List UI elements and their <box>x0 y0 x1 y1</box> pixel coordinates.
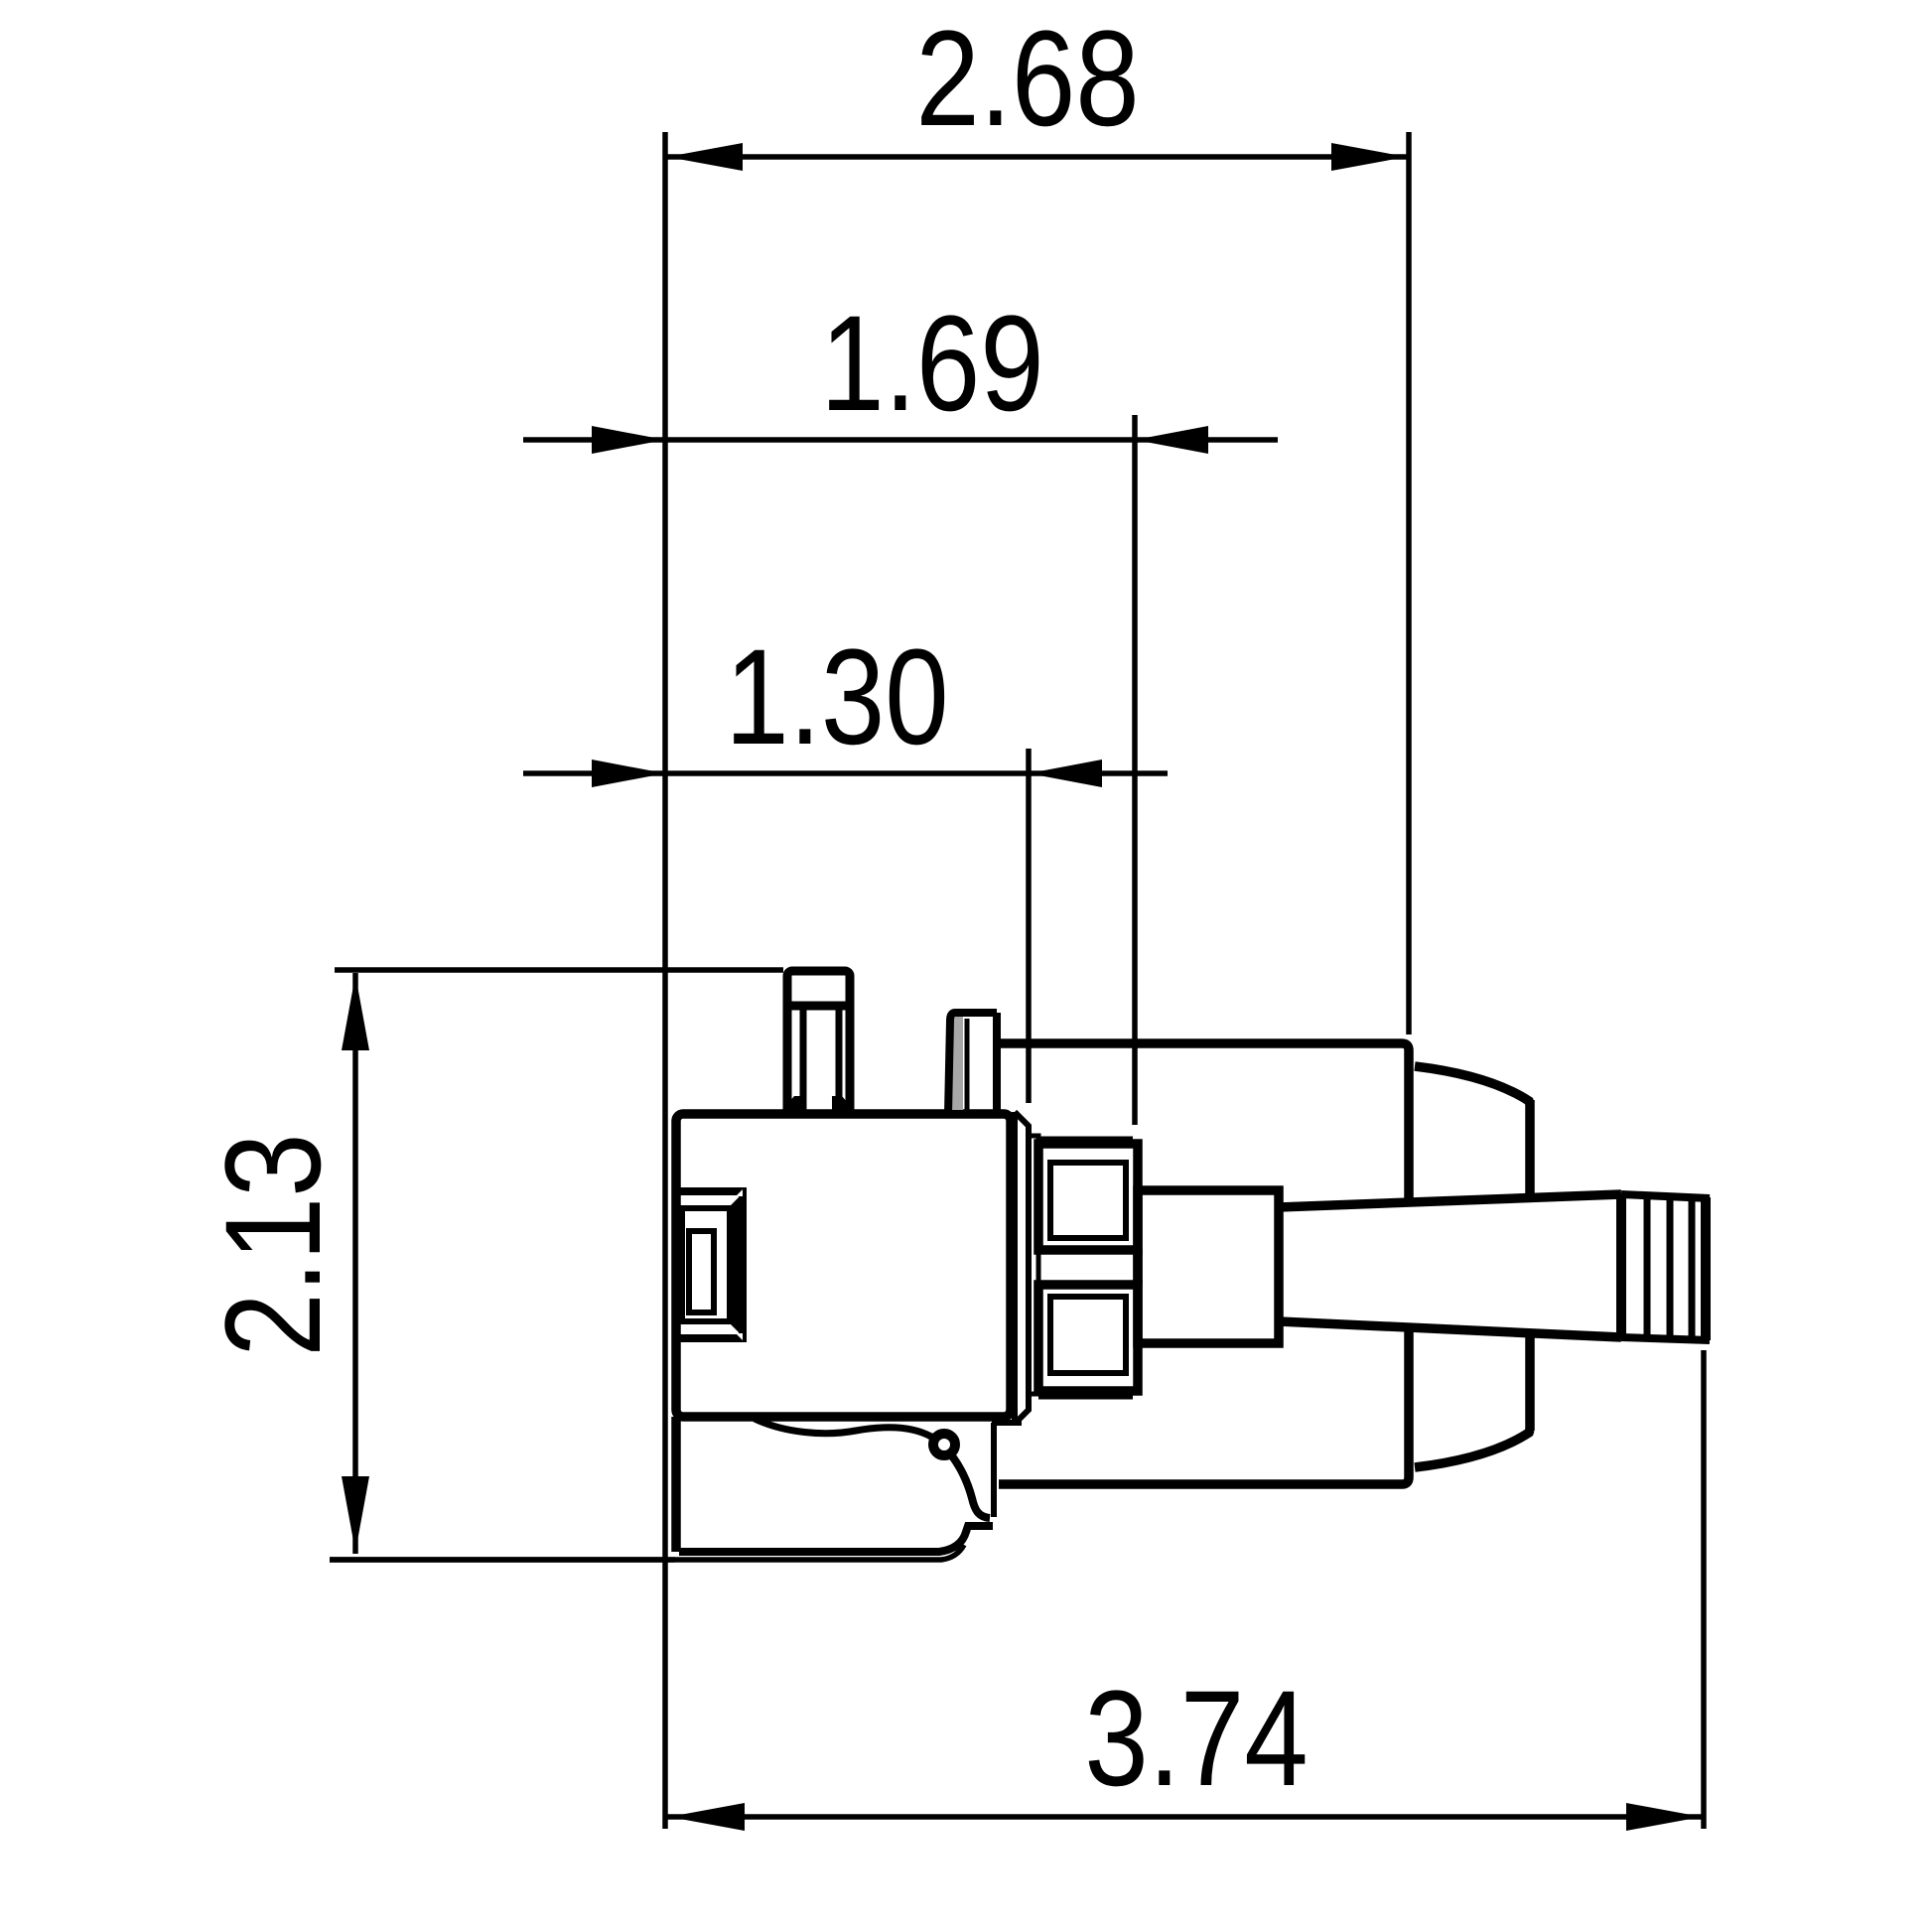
right post (hose barb) <box>948 1013 997 1114</box>
arrowhead 1.30 left <box>592 759 665 787</box>
svg-text:2.13: 2.13 <box>197 1133 348 1356</box>
extension line 2.13 bottom <box>330 1557 675 1563</box>
dimension label 1.69 <box>820 287 1043 439</box>
lower port block <box>1038 1285 1138 1397</box>
boot right vertical <box>991 1423 997 1517</box>
mounting plate bottom edge outer <box>330 1545 964 1560</box>
arrowhead 1.30 right <box>1029 759 1102 787</box>
port blocks right edge through gap <box>1133 1250 1143 1285</box>
arrowhead 2.13 bottom <box>342 1476 369 1552</box>
boot wavy break line <box>755 1419 931 1437</box>
arrowhead 1.69 right <box>1135 426 1208 454</box>
svg-text:2.68: 2.68 <box>915 2 1139 154</box>
dimension line 3.74 <box>667 1814 1704 1820</box>
arrowhead 2.68 left <box>667 143 743 171</box>
extension line 2.68 right <box>1406 132 1412 1035</box>
spout cone top edge <box>1279 1194 1621 1207</box>
electrical connector on left face <box>676 1189 745 1340</box>
dimension line 1.30 <box>523 770 1168 776</box>
rear housing bottom edge <box>999 1331 1409 1484</box>
svg-text:1.69: 1.69 <box>820 287 1043 439</box>
dimension label 3.74 <box>1084 1662 1308 1814</box>
dimension line 2.13 <box>352 973 358 1554</box>
adapter block <box>1138 1190 1279 1343</box>
spout cone bottom edge <box>1279 1321 1621 1337</box>
dimension label 1.30 <box>725 621 948 772</box>
bonnet dome upper arc <box>1415 1066 1530 1104</box>
arrowhead 3.74 right <box>1626 1803 1702 1831</box>
arrowhead 1.69 left <box>592 426 665 454</box>
boot loop <box>933 1434 955 1455</box>
dimension line 2.68 <box>665 154 1409 160</box>
dimension label 2.68 <box>915 2 1139 154</box>
bonnet dome lower arc <box>1415 1430 1530 1467</box>
bleed screw post (left post) <box>782 971 854 1114</box>
mounting plate bottom edge inner <box>679 1526 993 1552</box>
boot descending curve <box>950 1453 990 1518</box>
upper port block <box>1038 1139 1138 1250</box>
body bottom step <box>992 1420 1022 1426</box>
dimension line 1.69 <box>523 437 1278 443</box>
extension line left (long, shared by 2.68/1.69/1.30/3.74) <box>662 132 668 1829</box>
arrowhead 3.74 left <box>669 1803 745 1831</box>
extension line 2.13 top <box>335 967 783 973</box>
solenoid body <box>676 1114 1011 1417</box>
extension line 1.69 right <box>1132 415 1138 1125</box>
arrowhead 2.13 top <box>342 975 369 1050</box>
step strip <box>1029 1136 1038 1394</box>
bonnet dome right edge <box>1525 1100 1535 1431</box>
mounting plate left edge <box>671 1417 681 1552</box>
svg-text:1.30: 1.30 <box>725 621 948 772</box>
extension line 1.30 right <box>1026 749 1032 1103</box>
dimension label 2.13 (rotated) <box>197 1133 348 1356</box>
chamfered flange strip behind body <box>1015 1112 1029 1424</box>
arrowhead 2.68 right <box>1331 143 1407 171</box>
threaded end <box>1621 1194 1710 1340</box>
extension line 3.74 right <box>1701 1350 1707 1829</box>
rear housing top edge <box>996 1043 1409 1200</box>
svg-text:3.74: 3.74 <box>1084 1662 1308 1814</box>
